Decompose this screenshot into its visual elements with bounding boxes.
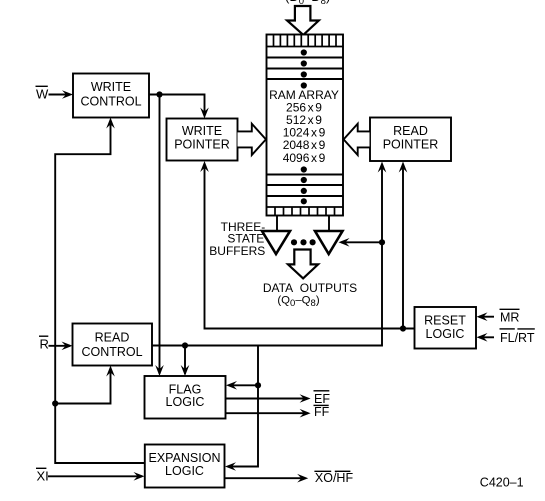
RAM upper ellipsis dots: [301, 49, 307, 88]
wire FL/RT input: [479, 336, 494, 338]
wire RAM to left buffer: [276, 216, 278, 232]
flag logic box U:FLAG LOGIC: [145, 376, 226, 419]
svg-text:4096x9: 4096x9: [283, 151, 326, 165]
svg-text:LOGIC: LOGIC: [166, 395, 205, 409]
read pointer box U:READ POINTER: [370, 118, 451, 162]
junction dot reset to read pointer: [400, 325, 406, 331]
read control box U:READ CONTROL: [73, 324, 153, 366]
W input label: [36, 86, 50, 101]
wire branch to read control: [55, 368, 110, 404]
wire branch down to flag/expansion (x=258): [228, 346, 258, 467]
svg-text:C420–1: C420–1: [480, 476, 524, 490]
svg-text:POINTER: POINTER: [383, 138, 439, 152]
MR input label: [500, 309, 520, 324]
wire flag feedback arrow: [229, 384, 258, 386]
R input label: [39, 336, 49, 351]
data output block arrow: [288, 250, 318, 279]
wire RAM to right buffer: [328, 216, 330, 232]
data input block arrow into RAM: [287, 6, 319, 35]
block arrow write pointer to RAM: [238, 124, 266, 155]
wire EF output: [226, 398, 309, 400]
wire R input: [49, 345, 71, 347]
wire read control to read pointer (via x=382): [152, 164, 382, 346]
svg-text:LOGIC: LOGIC: [165, 464, 204, 478]
wire expansion logic to write control / read control: [55, 120, 145, 463]
ellipsis dots between buffers: [291, 239, 316, 245]
three-state buffer right triangle: [315, 231, 343, 254]
wire W input: [49, 94, 71, 96]
three-state buffer left triangle: [262, 231, 290, 254]
wire XO/HF output: [225, 477, 306, 479]
svg-text:MR: MR: [500, 310, 519, 324]
wire write control output down to flag logic: [159, 95, 161, 375]
svg-text:EXPANSION: EXPANSION: [148, 451, 220, 465]
svg-text:CONTROL: CONTROL: [81, 345, 142, 359]
wire FF output: [226, 412, 309, 414]
XI input label: [36, 468, 49, 483]
FF output label: [314, 405, 330, 419]
RAM lower row lines: [267, 175, 344, 197]
wire reset logic to write pointer: [205, 164, 415, 329]
EF output label: [314, 391, 331, 406]
RAM ARRAY text block: [269, 88, 339, 165]
svg-text:EF: EF: [314, 392, 330, 406]
wire XI input: [48, 475, 142, 477]
THREE-STATE BUFFERS label: [209, 220, 265, 258]
junction dot read pointer / buffer enable: [379, 239, 385, 245]
svg-text:WRITE: WRITE: [91, 80, 131, 94]
svg-text:W: W: [36, 86, 49, 101]
wire read control output down to flag logic: [184, 346, 186, 375]
junction dot write control output: [156, 91, 162, 97]
svg-text:FL/RT: FL/RT: [500, 331, 535, 345]
junction dot expansion feedback: [52, 400, 58, 406]
svg-text:READ: READ: [95, 331, 130, 345]
wire reset to read pointer: [402, 164, 404, 329]
svg-text:LOGIC: LOGIC: [426, 327, 465, 341]
RAM lower ellipsis dots: [301, 166, 307, 204]
wire buffer enable arrow: [341, 241, 382, 243]
node label (D0-D8) data inputs, clipped at top edge: [285, 0, 330, 7]
svg-text:READ: READ: [393, 124, 428, 138]
RAM top comb row: [267, 35, 344, 47]
svg-text:XI: XI: [37, 468, 49, 483]
svg-text:BUFFERS: BUFFERS: [209, 244, 265, 258]
svg-text:FF: FF: [314, 405, 330, 419]
expansion logic box U:EXPANSION LOGIC: [145, 445, 225, 488]
RAM array box: [267, 35, 344, 216]
junction dot flag feedback: [255, 382, 261, 388]
svg-text:WRITE: WRITE: [182, 124, 222, 138]
write control box U:WRITE CONTROL: [73, 74, 149, 118]
svg-text:R: R: [40, 337, 49, 352]
svg-text:DATA OUTPUTS: DATA OUTPUTS: [263, 281, 357, 295]
RAM bottom comb row: [267, 207, 344, 216]
FL/RT input label: [500, 329, 535, 345]
junction dot read control output: [182, 342, 188, 348]
svg-text:RESET: RESET: [424, 314, 466, 328]
block arrow read pointer to RAM: [344, 124, 370, 155]
svg-text:XO/HF: XO/HF: [315, 471, 354, 485]
write pointer box U:WRITE POINTER: [167, 119, 238, 161]
wire MR input: [479, 316, 494, 318]
svg-text:CONTROL: CONTROL: [80, 95, 141, 109]
svg-text:POINTER: POINTER: [174, 138, 230, 152]
reset logic box U:RESET LOGIC: [415, 307, 477, 349]
wire write control to write pointer: [149, 95, 205, 117]
XO/HF output label: [314, 471, 353, 485]
RAM upper row lines: [267, 58, 344, 80]
